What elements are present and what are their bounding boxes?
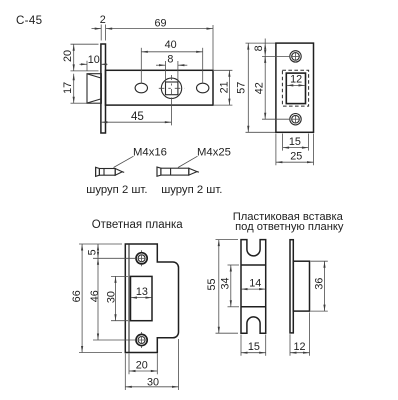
svg-text:15: 15 (289, 136, 301, 148)
dimension 20 (strike bottom) (129, 354, 157, 375)
dimension 12 (287, 74, 305, 87)
dimension 46 (89, 258, 136, 340)
svg-text:66: 66 (71, 290, 83, 302)
dimension 8 (front top) (253, 39, 290, 62)
svg-text:2: 2 (100, 14, 106, 26)
label M4x25 with leader (178, 146, 231, 167)
dimension 15 (insert) (241, 335, 266, 356)
svg-text:шуруп 2 шт.: шуруп 2 шт. (161, 184, 222, 196)
dimension 2 (92, 14, 106, 40)
svg-text:M4x25: M4x25 (197, 146, 231, 158)
dimension 45 (101, 110, 171, 123)
svg-text:8: 8 (253, 45, 265, 51)
svg-text:25: 25 (290, 150, 302, 162)
dimension 10 (bolt protrusion) (80, 54, 108, 71)
dimension 66 (71, 244, 122, 353)
spindle center cross (159, 75, 185, 125)
strike plate bend line (128, 244, 130, 353)
svg-text:57: 57 (235, 82, 247, 94)
latch body side view (106, 70, 214, 105)
svg-text:30: 30 (147, 377, 159, 389)
front plate view (276, 43, 314, 132)
strike screw hole top (136, 250, 147, 266)
dimension 14 (241, 277, 266, 290)
svg-text:шуруп 2 шт.: шуруп 2 шт. (86, 184, 147, 196)
svg-text:5: 5 (87, 249, 99, 255)
svg-text:20: 20 (136, 360, 148, 372)
svg-text:30: 30 (106, 291, 118, 303)
dimension 30 (strike hole) (106, 276, 128, 320)
dimension 34 (220, 265, 239, 307)
label M4x16 with leader (114, 146, 167, 167)
dimension 15 (front) (283, 134, 309, 151)
insert middle lines (241, 264, 266, 266)
svg-text:14: 14 (249, 277, 261, 289)
spindle square hole (166, 82, 178, 95)
svg-text:69: 69 (154, 18, 166, 30)
dimension 30 (strike bottom) (125, 339, 178, 390)
svg-text:10: 10 (88, 54, 100, 66)
latch bolt (87, 74, 101, 104)
dashed latch opening (282, 70, 308, 106)
svg-text:13: 13 (136, 286, 148, 298)
insert front view outline (241, 240, 266, 334)
strike plate outline (125, 244, 178, 353)
dimension 69 (106, 18, 213, 71)
svg-text:45: 45 (131, 110, 144, 123)
square hole front (286, 73, 305, 104)
dimension 21 (214, 70, 232, 105)
dimension 40 (141, 39, 202, 83)
svg-text:40: 40 (165, 39, 177, 51)
svg-text:46: 46 (89, 290, 101, 302)
dimension 12 (insert side) (290, 312, 310, 355)
dimension 8 (square) (156, 53, 187, 81)
strike latch hole (131, 276, 153, 320)
svg-text:42: 42 (253, 82, 265, 94)
dimension 20 (left) (62, 44, 98, 71)
svg-text:8: 8 (167, 53, 173, 65)
left oval hole (135, 83, 147, 93)
screw 2 M4x25 (157, 167, 199, 176)
svg-text:20: 20 (62, 50, 74, 62)
svg-text:С-45: С-45 (16, 14, 42, 27)
strike screw hole bottom (136, 332, 147, 348)
dimension 55 (206, 240, 238, 334)
svg-text:17: 17 (62, 82, 74, 94)
svg-text:12: 12 (293, 341, 305, 353)
dimension 5 (strike) (79, 244, 136, 258)
svg-text:Ответная планка: Ответная планка (92, 219, 184, 231)
screw 1 M4x16 (96, 167, 125, 176)
bottom screw hole front (290, 114, 301, 125)
svg-text:36: 36 (314, 278, 326, 290)
dimension 36 (311, 261, 328, 311)
insert side view plate (290, 240, 293, 333)
svg-text:12: 12 (290, 74, 302, 86)
svg-text:55: 55 (206, 278, 218, 290)
dimension 57 (between views) (235, 43, 276, 132)
spindle circle (161, 78, 181, 98)
svg-text:под ответную планку: под ответную планку (235, 221, 344, 233)
svg-text:21: 21 (218, 81, 230, 93)
top screw hole front (290, 51, 301, 62)
faceplate side view (101, 44, 106, 133)
svg-text:M4x16: M4x16 (133, 146, 167, 158)
dimension 25 (front) (276, 134, 314, 166)
dimension 13 (131, 286, 153, 299)
svg-text:15: 15 (248, 341, 260, 353)
dimension 42 (253, 56, 290, 119)
right oval hole (197, 83, 209, 93)
svg-text:34: 34 (220, 277, 232, 289)
insert side view block (293, 261, 309, 311)
dimension 17 (bolt height) (62, 74, 86, 104)
